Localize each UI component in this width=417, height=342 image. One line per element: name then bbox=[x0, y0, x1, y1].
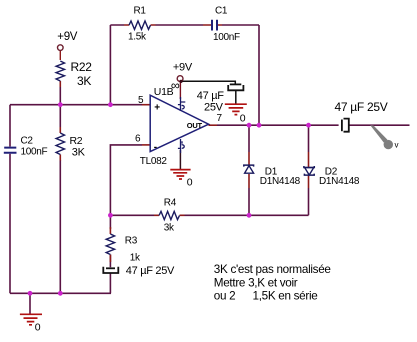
ground (op-amp V-) bbox=[170, 170, 193, 189]
voltage probe bbox=[370, 125, 398, 149]
resistor R4 bbox=[159, 197, 180, 233]
wire top feedback rail y=25 bbox=[110, 25, 259, 125]
svg-text:5: 5 bbox=[138, 95, 144, 106]
wire opamp V+ lead bbox=[179, 82, 181, 99]
op-amp V- power pin squiggle bbox=[178, 139, 184, 153]
svg-text:0: 0 bbox=[240, 113, 246, 125]
svg-text:6: 6 bbox=[135, 134, 141, 145]
svg-text:Mettre 3,K et voir: Mettre 3,K et voir bbox=[214, 277, 298, 290]
svg-text:+9V: +9V bbox=[57, 31, 78, 43]
wire top-left rail net A bbox=[10, 104, 142, 106]
svg-text:D1N4148: D1N4148 bbox=[260, 176, 301, 187]
svg-text:3K: 3K bbox=[72, 147, 86, 159]
wire left vertical x=10 bbox=[9, 105, 11, 294]
wire D1 vertical bbox=[248, 125, 250, 215]
wire pin7 stub bbox=[209, 124, 218, 126]
annotation text bbox=[214, 263, 331, 302]
ground (bottom-left) bbox=[20, 314, 42, 333]
svg-text:-: - bbox=[154, 142, 157, 153]
capacitor C1 bbox=[212, 6, 240, 43]
svg-text:1.5k: 1.5k bbox=[128, 32, 147, 43]
capacitor C3 47uF bypass bbox=[197, 84, 244, 113]
resistor R2 bbox=[56, 133, 86, 159]
wire D2 vertical bbox=[308, 125, 310, 215]
svg-text:C1: C1 bbox=[215, 6, 228, 17]
wire mid rail y=215 bbox=[110, 214, 308, 216]
junction R2/bottom rail bbox=[58, 291, 63, 296]
svg-text:47 µF: 47 µF bbox=[197, 90, 224, 102]
power terminal +9V (left) bbox=[57, 31, 78, 51]
wire +9V terminal 1 lead bbox=[59, 51, 61, 61]
op-amp U1 triangle bbox=[135, 78, 223, 167]
svg-text:TL082: TL082 bbox=[140, 156, 168, 167]
svg-text:1k: 1k bbox=[130, 252, 141, 263]
svg-text:3K: 3K bbox=[77, 74, 91, 88]
wire bypass cap stem to ground bbox=[235, 90, 237, 104]
svg-text:3k: 3k bbox=[164, 222, 175, 233]
wire D2 leads bbox=[308, 152, 310, 188]
capacitor C2 bbox=[4, 136, 48, 158]
svg-text:1,5K en série: 1,5K en série bbox=[253, 290, 318, 303]
diode D2 bbox=[304, 166, 360, 187]
junction feedback/pin5 rail bbox=[108, 102, 113, 107]
svg-text:100nF: 100nF bbox=[21, 147, 48, 158]
wire pin6 stub bbox=[142, 144, 151, 146]
svg-text:C2: C2 bbox=[21, 136, 34, 147]
wire feedback left vertical bbox=[109, 25, 111, 105]
svg-text:3K c'est pas normalisée: 3K c'est pas normalisée bbox=[214, 263, 331, 276]
svg-text:0: 0 bbox=[187, 176, 193, 188]
resistor R3 bbox=[106, 234, 141, 263]
wire output rail y=125 bbox=[217, 124, 410, 126]
capacitor C4 47uF (output) bbox=[335, 100, 388, 132]
svg-text:R3: R3 bbox=[125, 235, 138, 246]
svg-text:+9V: +9V bbox=[173, 61, 193, 73]
junction D1/mid rail bbox=[247, 213, 252, 218]
ground (bypass cap) bbox=[225, 104, 247, 124]
diode D1 bbox=[244, 165, 301, 187]
resistor R1 bbox=[128, 6, 151, 43]
wire ground stub bottom-left bbox=[29, 293, 31, 314]
svg-text:D1N4148: D1N4148 bbox=[319, 176, 360, 187]
power terminal +9V (op-amp) bbox=[173, 61, 193, 81]
svg-text:7: 7 bbox=[217, 113, 223, 124]
svg-text:R4: R4 bbox=[164, 197, 177, 208]
svg-text:R2: R2 bbox=[70, 135, 83, 147]
wire R3 leads bbox=[109, 227, 111, 262]
junction R3/R4/pin6 net bbox=[108, 213, 113, 218]
svg-text:R22: R22 bbox=[71, 60, 93, 74]
junction ground/bottom rail bbox=[28, 291, 33, 296]
svg-text:v: v bbox=[395, 141, 399, 150]
svg-text:100nF: 100nF bbox=[213, 32, 240, 43]
svg-text:+: + bbox=[154, 103, 160, 114]
op-amp V+ power pin squiggle bbox=[178, 97, 185, 111]
wire C1 leads bbox=[203, 24, 222, 26]
svg-text:OUT: OUT bbox=[187, 121, 203, 130]
wire R3 branch x=110.5 bbox=[109, 215, 111, 293]
wire pin6 net bbox=[110, 145, 142, 215]
svg-text:0: 0 bbox=[35, 322, 41, 334]
capacitor C5 47uF (by R3) bbox=[103, 265, 175, 277]
wire R1 leads bbox=[124, 24, 156, 26]
svg-text:ou 2: ou 2 bbox=[214, 290, 236, 303]
junction D2/output rail bbox=[306, 123, 311, 128]
svg-text:47 µF 25V: 47 µF 25V bbox=[335, 100, 388, 114]
junction D1/output rail bbox=[247, 123, 252, 128]
junction feedback/output rail bbox=[257, 123, 262, 128]
wire black bypass cap top bbox=[183, 81, 236, 84]
wire bottom rail y=293 bbox=[10, 292, 111, 294]
svg-text:R1: R1 bbox=[134, 6, 147, 17]
svg-text:25V: 25V bbox=[204, 101, 224, 113]
wire R4 leads bbox=[154, 214, 185, 216]
wire R22-R2 vertical x=60 bbox=[59, 87, 61, 293]
wire pin5 stub bbox=[142, 104, 151, 106]
junction at +9V bubble bbox=[179, 80, 182, 83]
resistor R22 bbox=[56, 60, 92, 88]
svg-text:47 µF 25V: 47 µF 25V bbox=[126, 265, 175, 277]
junction R22/R2/input rail bbox=[58, 102, 63, 107]
wire opamp V- lead to ground bbox=[179, 150, 181, 169]
wire D1 leads bbox=[248, 152, 250, 188]
